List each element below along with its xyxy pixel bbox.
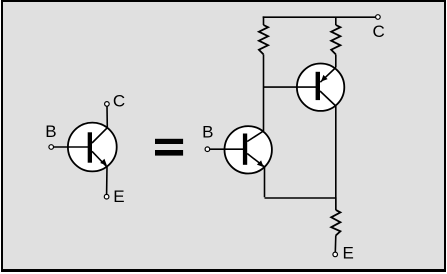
terminal C (right): [376, 15, 381, 20]
wire Q1 base lead: [53, 146, 88, 148]
wire bottom horizontal: [265, 198, 336, 210]
resistor R1: [259, 25, 268, 54]
terminal E (left): [104, 194, 109, 199]
svg-text:C: C: [113, 92, 125, 111]
wire R3 to E terminal: [334, 235, 337, 252]
transistor Q1 (left single NPN): [68, 123, 117, 172]
wire Q3 collector rail: [335, 106, 337, 210]
svg-text:E: E: [113, 187, 124, 206]
wire R2 top lead: [335, 17, 337, 25]
transistor Q2 (lower NPN): [225, 126, 272, 173]
svg-text:E: E: [343, 244, 354, 263]
wire Q1 collector lead: [106, 106, 108, 128]
svg-text:B: B: [202, 123, 213, 142]
terminal E (right): [333, 252, 338, 257]
svg-text:B: B: [45, 122, 56, 141]
svg-text:C: C: [373, 22, 385, 41]
transistor Q3 (upper PNP): [297, 63, 344, 110]
resistor R2: [331, 25, 340, 54]
terminal C (left): [105, 102, 110, 107]
wire Q1 emitter lead: [106, 167, 108, 194]
equals sign: [155, 139, 183, 156]
wire Q2 emitter down: [264, 167, 266, 197]
resistor R3: [331, 210, 340, 236]
wire R2 to Q3 emitter: [335, 54, 337, 67]
terminal B (left): [49, 145, 54, 150]
wire Q2 base lead: [210, 148, 244, 150]
wire Q3 base: [264, 86, 317, 88]
terminal B (right): [205, 147, 210, 152]
wire top rail: [263, 16, 376, 18]
wire top rail left corner: [262, 17, 265, 25]
wire left rail (R1 to Q2 collector): [263, 54, 265, 131]
